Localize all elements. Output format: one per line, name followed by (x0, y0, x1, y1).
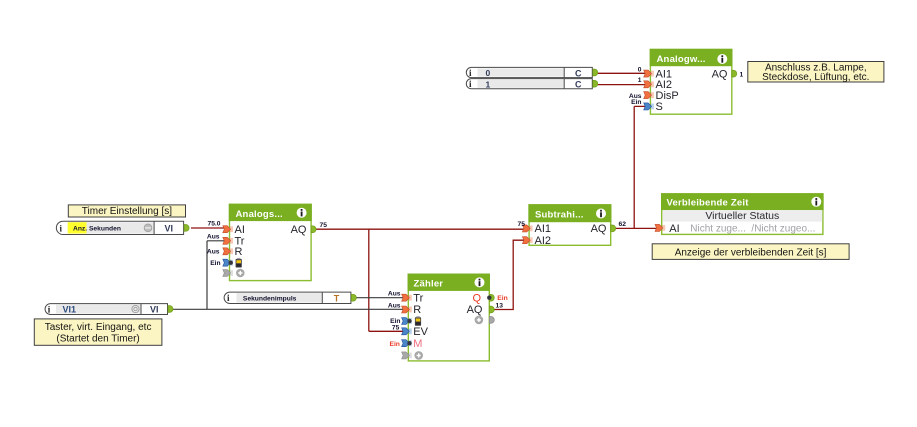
plus icon (236, 269, 245, 278)
svg-text:Ein: Ein (210, 260, 220, 267)
svg-text:Anzeige der verbleibenden Zeit: Anzeige der verbleibenden Zeit [s] (675, 247, 827, 258)
pin AI input (223, 226, 233, 233)
svg-text:Zähler: Zähler (414, 278, 444, 289)
svg-text:AI: AI (235, 224, 245, 236)
svg-text:VI: VI (165, 224, 174, 234)
wire W8 VI1 to Zaehler R with branch to Analogs Tr (digital) (172, 241, 404, 309)
svg-text:DisP: DisP (656, 90, 679, 102)
wire W4 Analogs AQ to Subtrahi AI1 with branch to Zaehler EV (315, 229, 524, 331)
constant C1 value 1 (466, 79, 598, 90)
pin spare input (223, 270, 233, 277)
svg-text:75: 75 (518, 221, 526, 228)
svg-text:Anz. Sekunden: Anz. Sekunden (73, 226, 121, 233)
svg-text:AI2: AI2 (535, 235, 552, 247)
svg-text:1: 1 (486, 80, 491, 90)
pin R input (402, 306, 412, 313)
plus icon output side (475, 316, 484, 325)
svg-text:Sekundenimpuls: Sekundenimpuls (243, 295, 297, 302)
note N3 Taster (34, 319, 162, 345)
svg-text:T: T (334, 294, 340, 304)
svg-text:AI1: AI1 (535, 223, 552, 235)
svg-text:Timer Einstellung [s]: Timer Einstellung [s] (82, 206, 172, 217)
svg-text:Ein: Ein (631, 99, 641, 106)
svg-text:Analogs...: Analogs... (236, 209, 283, 220)
svg-text:AQ: AQ (591, 223, 607, 235)
svg-text:75: 75 (392, 324, 400, 331)
svg-text:AQ: AQ (291, 224, 307, 236)
svg-text:AQ: AQ (712, 68, 728, 80)
svg-text:C: C (575, 68, 582, 78)
op block U2 Analogs... (Analogspeicher) (229, 204, 312, 281)
svg-text:Subtrahi...: Subtrahi... (535, 210, 584, 221)
svg-text:Ein: Ein (497, 295, 507, 302)
svg-text:R: R (413, 304, 421, 316)
wire W6 Subtrahi AQ to Verbleibende AI with branch to S (614, 106, 657, 228)
wire W5 Zaehler AQ to Subtrahi AI2 (492, 240, 524, 309)
pin R input (223, 248, 233, 255)
input block VI Anz. Sekunden (56, 221, 189, 234)
input block Sekundenimpuls (224, 292, 356, 303)
status block U4 Verbleibende Zeit (661, 193, 824, 235)
svg-text:75.0: 75.0 (207, 220, 220, 227)
svg-text:Verbleibende Zeit: Verbleibende Zeit (667, 198, 750, 209)
pin battery (remanence) input (223, 259, 233, 266)
wire W2 const1 to AI2 (592, 84, 646, 86)
svg-text:Analogw...: Analogw... (657, 54, 706, 65)
pin AQ output (611, 225, 616, 232)
pin AQ output (311, 226, 316, 233)
pin DisP input (644, 92, 654, 99)
pin AI2 input (522, 237, 532, 244)
svg-text:Nicht zuge... /Nicht zugeo...: Nicht zuge... /Nicht zugeo... (690, 224, 815, 235)
svg-text:62: 62 (619, 221, 627, 228)
wire W7 Sekundenimpuls T to Zaehler Tr (digital) (354, 297, 404, 299)
svg-text:Ein: Ein (389, 341, 399, 348)
battery icon (415, 316, 421, 326)
pin spare input (402, 352, 412, 359)
pin AI1 input (522, 225, 532, 232)
svg-text:M: M (413, 338, 422, 350)
svg-text:Aus: Aus (388, 291, 401, 298)
pin AI input (655, 224, 665, 231)
pin AQ output (489, 306, 494, 313)
note N2 Timer Einstellung (68, 205, 185, 217)
svg-text:1: 1 (638, 77, 642, 84)
svg-text:EV: EV (413, 326, 428, 338)
svg-text:Q: Q (472, 292, 481, 304)
svg-text:Virtueller Status: Virtueller Status (705, 210, 779, 222)
pin AI2 input (644, 81, 654, 88)
svg-text:0: 0 (486, 68, 491, 78)
pin Tr input (223, 237, 233, 244)
battery icon (236, 258, 242, 268)
note N4 Anzeige (652, 244, 849, 260)
op block U5 Zaehler (counter) (408, 274, 490, 361)
svg-text:C: C (575, 80, 582, 90)
pin spare output (489, 317, 494, 324)
input block VI1 (45, 304, 173, 315)
svg-text:AI: AI (669, 223, 679, 235)
svg-text:Aus: Aus (207, 233, 220, 240)
op block U3 Subtrahi... (Subtrahierer) (528, 204, 611, 247)
svg-text:Tr: Tr (413, 292, 423, 304)
svg-text:Aus: Aus (388, 303, 401, 310)
pin AI1 input (644, 70, 654, 77)
pin M input (402, 340, 412, 347)
svg-text:0: 0 (638, 66, 642, 73)
svg-text:75: 75 (320, 222, 328, 229)
wire W1 const0 to AI1 (592, 72, 646, 74)
svg-text:R: R (235, 246, 243, 258)
svg-text:AQ: AQ (467, 304, 483, 316)
svg-text:VI1: VI1 (63, 305, 77, 315)
note N1 Anschluss (748, 62, 884, 83)
svg-text:Aus: Aus (207, 248, 220, 255)
pin EV input (402, 328, 412, 335)
pin battery (remanence) input (402, 318, 412, 325)
svg-text:VI: VI (150, 305, 159, 315)
pin AQ output (732, 70, 737, 77)
pin S input (digital) (644, 103, 654, 110)
svg-text:(Startet den Timer): (Startet den Timer) (56, 333, 139, 344)
svg-text:Steckdose, Lüftung, etc.: Steckdose, Lüftung, etc. (762, 72, 869, 83)
wire W3 VI to Analogs AI (191, 227, 226, 229)
svg-text:Taster, virt. Eingang, etc: Taster, virt. Eingang, etc (45, 322, 152, 333)
svg-text:1: 1 (740, 71, 744, 78)
pin Q output (489, 294, 494, 301)
op block U1 Analogw... (Analogwahlschalter) (650, 49, 733, 114)
plus icon input side (414, 351, 423, 360)
svg-text:S: S (656, 101, 663, 113)
constant C0 value 0 (466, 67, 597, 78)
svg-text:13: 13 (496, 302, 504, 309)
pin Tr input (402, 294, 412, 301)
